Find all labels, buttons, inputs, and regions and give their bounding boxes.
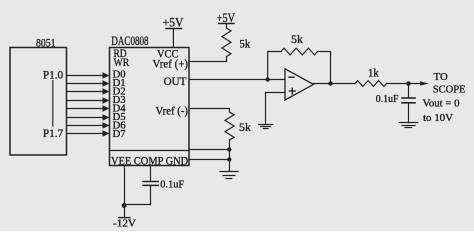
feedback wire down to output	[318, 52, 331, 84]
wire R2 bottom to ground	[229, 140, 231, 172]
svg-text:WR: WR	[114, 55, 130, 69]
ground (C2)	[399, 123, 417, 128]
svg-text:Vout = 0: Vout = 0	[423, 97, 460, 109]
wire D7	[67, 130, 110, 136]
svg-text:D7: D7	[113, 128, 127, 140]
resistor R1 5k	[222, 28, 231, 57]
wire C1 to VEE node	[125, 185, 151, 204]
wire op-amp output	[314, 83, 356, 85]
wire D0	[67, 72, 110, 78]
wire R4 to scope node	[387, 83, 421, 85]
-12V supply	[113, 218, 136, 230]
resistor R4 1k	[355, 81, 387, 87]
node junction lower	[227, 157, 231, 161]
ground (op-amp +)	[259, 125, 273, 129]
node junction upper	[227, 147, 231, 151]
wire R1 to Vref(+) pin	[189, 57, 227, 62]
wire C2 to ground	[408, 103, 410, 123]
svg-text:5k: 5k	[240, 38, 251, 50]
port range line P1.0-P1.7	[52, 81, 54, 127]
svg-text:P1.0: P1.0	[43, 69, 63, 81]
svg-text:0.1uF: 0.1uF	[160, 178, 184, 190]
wire Vref(-)	[189, 109, 230, 113]
wire op-amp + input to ground	[266, 93, 286, 125]
wire +5V to R1	[226, 24, 228, 29]
svg-text:to 10V: to 10V	[423, 112, 453, 124]
DAC U1 DAC0808 box	[110, 48, 190, 166]
wire GND pin to node	[189, 159, 230, 161]
DAC internal separator line	[110, 150, 190, 152]
8051 MCU box	[10, 48, 67, 156]
feedback wire up	[268, 52, 281, 80]
wire D2	[67, 88, 110, 94]
svg-text:P1.7: P1.7	[43, 128, 63, 140]
svg-text:8051: 8051	[36, 38, 56, 50]
capacitor C1 0.1uF	[143, 182, 158, 186]
+5V supply (VCC)	[163, 15, 184, 29]
node junction output	[328, 81, 332, 85]
wire separator row to node	[189, 149, 230, 151]
svg-text:SCOPE: SCOPE	[433, 83, 466, 95]
wire VEE down	[124, 166, 126, 218]
node junction scope	[406, 81, 411, 86]
wire D4	[67, 105, 110, 111]
svg-text:VEE COMP GND: VEE COMP GND	[111, 154, 188, 168]
svg-text:5k: 5k	[239, 122, 251, 134]
label TO SCOPE	[433, 71, 466, 95]
svg-text:0.1uF: 0.1uF	[376, 93, 399, 105]
wire D5	[67, 114, 110, 120]
resistor R2 5k	[225, 112, 234, 140]
svg-text:5k: 5k	[291, 34, 303, 46]
op-amp U2	[285, 69, 314, 100]
svg-text:Vref (-): Vref (-)	[156, 104, 189, 118]
wire COMP down	[150, 166, 152, 182]
wire D6	[67, 122, 110, 128]
svg-text:OUT: OUT	[164, 74, 187, 88]
arrow to scope	[420, 81, 429, 85]
wire D1	[67, 80, 110, 86]
label Vout = 0 to 10V	[423, 97, 460, 124]
node junction at op-amp inverting input	[266, 77, 270, 81]
resistor R3 5k feedback	[281, 48, 318, 55]
svg-text:Vref (+): Vref (+)	[153, 56, 189, 70]
wire D3	[67, 97, 110, 103]
svg-text:+5V: +5V	[163, 15, 184, 29]
ground (DAC GND)	[220, 172, 238, 179]
wire node to C2	[408, 84, 410, 98]
node junction VEE/C1	[122, 203, 127, 208]
wire VCC to +5V	[172, 29, 174, 48]
svg-text:1k: 1k	[368, 67, 379, 79]
capacitor C2 0.1uF	[402, 98, 415, 103]
+5V supply (Vref+)	[217, 11, 235, 25]
svg-text:-12V: -12V	[113, 219, 136, 230]
svg-text:TO: TO	[434, 71, 448, 83]
wire OUT to op-amp	[189, 79, 285, 81]
